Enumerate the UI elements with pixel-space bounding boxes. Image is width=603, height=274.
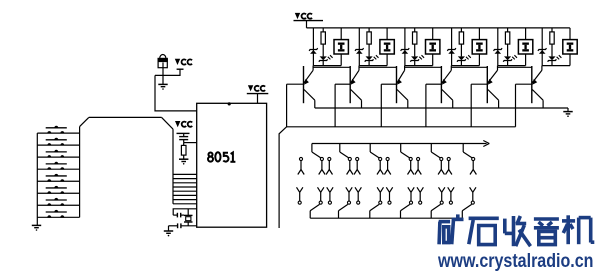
wire row1 stub — [369, 144, 371, 153]
zener diode D4 — [447, 48, 456, 54]
wire XTAL1 — [173, 209, 197, 215]
zener diode D1 — [309, 48, 318, 54]
key switch row2-12 — [470, 187, 476, 204]
ground emitter rail — [563, 108, 572, 117]
key switch row1-7 — [384, 157, 390, 174]
wire Q6 base drop — [515, 84, 517, 127]
transistor Q6 — [516, 66, 544, 108]
key switch row2-1 — [297, 187, 303, 204]
LED6 — [548, 55, 562, 65]
wire Q3 base drop — [380, 84, 382, 127]
wire key row 3 — [37, 156, 79, 158]
wire Q2 base drop — [334, 84, 336, 127]
pushbutton S7 — [46, 198, 67, 206]
wire row2 diagonal — [462, 204, 471, 210]
zener diode D6 — [538, 48, 547, 54]
LED4 — [457, 55, 471, 65]
wire row2 stub — [430, 211, 432, 219]
key switch row1-10 — [438, 157, 444, 174]
wire port line 2 — [173, 178, 197, 180]
key switch row2-11 — [448, 187, 454, 204]
wire cell 5 bottom — [498, 65, 526, 67]
key switch row2-6 — [377, 187, 383, 204]
wire row2 stub — [400, 211, 402, 219]
watermark char yin — [534, 219, 559, 245]
wire row1 diagonal — [340, 152, 349, 158]
resistor R3 — [367, 28, 371, 57]
wire row1 diagonal — [463, 152, 472, 158]
wire row2 diagonal — [370, 204, 379, 210]
LED3 — [410, 55, 424, 65]
wire cell 3 bottom — [405, 65, 433, 67]
wire keypad bus — [89, 116, 162, 118]
MCU U1 8051 box — [197, 103, 267, 227]
electrolytic capacitor (cylinder) C4 — [158, 55, 168, 68]
wire cell 3 emitter link — [405, 66, 442, 68]
key switch row1-3 — [326, 157, 332, 174]
wire row1 stub — [462, 144, 464, 153]
wire Q4 base drop — [425, 84, 427, 127]
wire row2 stub — [338, 211, 340, 219]
transistor Q2 — [335, 66, 361, 108]
wire cell 2 emitter link — [359, 66, 396, 68]
wire key row 8 — [37, 216, 79, 218]
wire port bus vertical — [172, 129, 174, 204]
wire cell 2 bottom — [359, 65, 387, 67]
crystal Y1 — [184, 209, 193, 226]
wire keypad left rail — [36, 133, 38, 225]
wire VCC rail — [307, 27, 570, 29]
wire matrix row2 line — [310, 217, 462, 219]
label 8051 — [208, 152, 235, 162]
wire zener drop 3 — [404, 28, 406, 66]
wire row2 diagonal — [401, 204, 410, 210]
power symbol VCC (8051) — [247, 85, 268, 103]
key switch row2-9 — [417, 187, 423, 204]
wire Q5 base drop — [470, 84, 472, 127]
wire node to 8051 — [155, 75, 197, 111]
ground cylinder — [158, 84, 167, 89]
power symbol VCC (reset) — [175, 121, 192, 137]
wire row2 stub — [461, 211, 463, 219]
pushbutton S8 — [46, 210, 67, 218]
wire row2 stub — [369, 211, 371, 219]
resistor R6 — [505, 28, 509, 57]
wire RST — [184, 142, 197, 144]
wire cell 4 emitter link — [452, 66, 488, 68]
key switch row1-1 — [298, 157, 304, 174]
transistor Q4 — [426, 66, 453, 108]
pushbutton S5 — [46, 174, 67, 182]
wire collector rail — [315, 107, 568, 109]
wire port line 6 — [173, 194, 197, 196]
LED2 — [365, 55, 379, 65]
capacitor C2 — [173, 213, 184, 218]
pushbutton S2 — [46, 138, 67, 146]
zener diode D5 — [494, 48, 503, 54]
wire port line 8 — [173, 203, 197, 205]
key switch row1-5 — [354, 157, 360, 174]
display unit K3 — [426, 28, 440, 66]
ground reset — [179, 159, 188, 164]
zener diode D2 — [355, 48, 364, 54]
display unit K1 — [334, 28, 348, 66]
resistor R7 — [550, 28, 554, 57]
wire key row 1 — [37, 132, 79, 134]
power symbol VCC (display rail) — [294, 13, 324, 28]
pushbutton S1 — [46, 126, 67, 134]
resistor R2 — [321, 28, 325, 57]
wire port line 3 — [173, 182, 197, 184]
capacitor C1 (reset) — [179, 137, 188, 143]
LED5 — [503, 55, 517, 65]
display unit K2 — [380, 28, 394, 66]
wire row2 diagonal — [339, 204, 348, 210]
wire cylinder lead — [162, 62, 164, 84]
wire keypad bus diagonal left — [80, 117, 89, 126]
wire cell 5 emitter link — [498, 66, 532, 68]
wire key row 5 — [37, 180, 79, 182]
capacitor C3 — [169, 223, 181, 228]
display unit K5 — [518, 28, 532, 66]
watermark char kuang — [439, 214, 464, 244]
resistor R4 — [413, 28, 417, 57]
power symbol VCC (near cylinder) — [175, 59, 192, 65]
wire port line 1 — [173, 173, 197, 175]
key switch row2-8 — [408, 187, 414, 204]
wire VCC bar to node — [177, 68, 184, 70]
transistor Q3 — [381, 66, 408, 108]
pushbutton S6 — [46, 186, 67, 194]
wire key row 6 — [37, 192, 79, 194]
key switch row1-8 — [408, 157, 414, 174]
resistor R1 (reset) — [181, 143, 186, 159]
wire zener drop 6 — [541, 28, 543, 66]
pushbutton S4 — [46, 162, 67, 170]
wire row2 diagonal — [310, 204, 319, 210]
key switch row1-6 — [377, 157, 383, 174]
key switch row2-10 — [439, 187, 445, 204]
wire cell 1 emitter link — [313, 66, 350, 68]
wire row1 diagonal — [370, 152, 379, 158]
wire zener drop 4 — [451, 28, 453, 66]
display unit K6 — [563, 28, 577, 66]
key switch row1-9 — [415, 157, 421, 174]
wire zener drop 5 — [497, 28, 499, 66]
watermark char shou — [505, 216, 531, 246]
ground crystal — [164, 226, 173, 237]
svg-text:www.crystalradio.cn: www.crystalradio.cn — [437, 251, 593, 272]
wire port line 7 — [173, 199, 197, 201]
display unit K4 — [472, 28, 486, 66]
ground keypad — [32, 225, 41, 230]
wire VCC stem — [155, 69, 180, 75]
zener diode D3 — [401, 48, 410, 54]
watermark char ji — [562, 215, 594, 244]
key switch row2-5 — [355, 187, 361, 204]
wire base bus — [287, 126, 516, 128]
wire row1 diagonal — [431, 152, 440, 158]
wire zener drop 1 — [312, 28, 314, 66]
wire port line 5 — [173, 190, 197, 192]
arrow matrix row1 — [483, 141, 489, 147]
wire cell 4 bottom — [452, 65, 480, 67]
key switch row1-12 — [470, 157, 476, 174]
key switch row2-4 — [346, 187, 352, 204]
wire row1 stub — [311, 144, 313, 153]
wire row1 diagonal — [312, 152, 321, 158]
key switch row2-2 — [318, 187, 324, 204]
wire row1 diagonal — [401, 152, 410, 158]
wire row1 stub — [430, 144, 432, 153]
wire cell 6 bottom — [542, 65, 570, 67]
wire Q1 base route — [279, 84, 287, 228]
wire matrix row1 line — [312, 143, 487, 145]
key switch row2-7 — [386, 187, 392, 204]
key switch row1-4 — [347, 157, 353, 174]
transistor Q5 — [471, 66, 498, 108]
LED1 — [319, 55, 333, 65]
wire keypad bus diagonal right — [162, 117, 173, 129]
wire key row 4 — [37, 168, 79, 170]
wire key row 7 — [37, 204, 79, 206]
wire keypad right rail — [79, 127, 81, 218]
key switch row1-11 — [446, 157, 452, 174]
resistor R5 — [459, 28, 463, 57]
wire row2 diagonal — [431, 204, 440, 210]
wire cell 1 bottom — [313, 65, 341, 67]
transistor Q1 — [287, 66, 315, 108]
key switch row2-3 — [327, 187, 333, 204]
wire row1 stub — [400, 144, 402, 153]
wire key row 2 — [37, 144, 79, 146]
watermark char shi — [469, 218, 499, 244]
junction dot on 8051 top — [228, 102, 231, 105]
wire row1 stub — [339, 144, 341, 153]
wire row2 stub — [309, 211, 311, 219]
wire zener drop 2 — [358, 28, 360, 66]
wire port line 4 — [173, 186, 197, 188]
key switch row1-2 — [319, 157, 325, 174]
pushbutton S3 — [46, 150, 67, 158]
wire XTAL2 right — [181, 225, 197, 227]
